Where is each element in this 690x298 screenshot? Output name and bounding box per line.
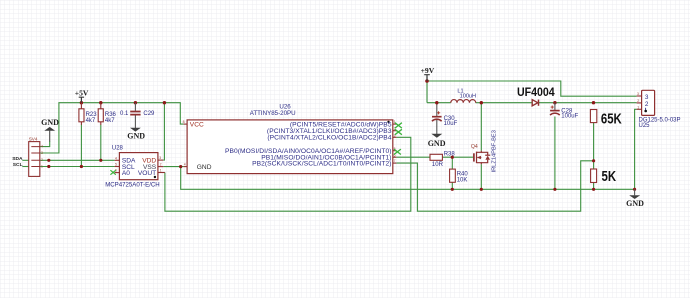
wire diode cathode to U25 pin2: [539, 102, 637, 104]
wire +9V riser: [426, 77, 428, 103]
svg-text:3: 3: [159, 156, 161, 160]
svg-text:GND: GND: [41, 118, 59, 127]
junction divider midpoint: [592, 159, 595, 162]
wire R38 junction to R40: [451, 157, 453, 169]
junction SCL at SV4: [47, 165, 50, 168]
wire U25 pin1 to GND rail: [635, 109, 637, 189]
svg-text:5: 5: [115, 163, 117, 167]
pin VCC stub U26: [184, 123, 188, 125]
wire SCL bus SV4 to U28: [40, 166, 115, 168]
junction SDA/R36: [99, 159, 102, 162]
junction SDA at SV4: [47, 159, 50, 162]
svg-text:2: 2: [41, 158, 43, 162]
wire 5K to GND rail: [593, 183, 595, 190]
junction SCL/R23: [80, 165, 83, 168]
svg-text:U25: U25: [639, 123, 651, 129]
junction Q4 source/GND rail: [480, 188, 483, 191]
svg-text:2: 2: [160, 163, 162, 167]
svg-text:3: 3: [41, 151, 43, 155]
svg-text:10K: 10K: [457, 178, 468, 184]
svg-text:100uH: 100uH: [460, 93, 476, 99]
pin VSS stub U28: [158, 166, 163, 168]
resistor 65K: [590, 110, 622, 127]
pin VDD stub U28: [158, 159, 163, 161]
ground GND at rail end: [626, 189, 644, 208]
junction +5V/VDD drop: [163, 101, 166, 104]
pin PB1 stub U26: [393, 156, 397, 158]
resistor R23: [79, 103, 97, 125]
svg-text:4: 4: [115, 156, 117, 160]
svg-text:0.1: 0.1: [120, 111, 129, 117]
svg-text:VOUT: VOUT: [138, 170, 156, 177]
wire U28 VSS to U26 GND: [163, 166, 183, 168]
svg-text:A0: A0: [122, 170, 130, 177]
svg-text:SCL: SCL: [13, 162, 23, 168]
pin GND stub U26: [184, 166, 188, 168]
svg-text:GND: GND: [626, 199, 644, 208]
wire 65K to divider midpoint: [593, 123, 595, 161]
capacitor C29: [120, 103, 155, 117]
svg-text:C29: C29: [143, 111, 155, 117]
svg-text:UF4004: UF4004: [517, 86, 555, 99]
wire Q4 drain: [480, 103, 482, 151]
junction R40/GND rail: [451, 188, 454, 191]
no-connect X on PB3: [395, 129, 402, 134]
pin 3 stub U25: [637, 95, 642, 97]
ground GND at SV4 pin4: [41, 118, 59, 142]
svg-text:SDA: SDA: [12, 156, 23, 162]
wire R40 to GND rail: [451, 182, 453, 189]
wire SDA net label stub: [22, 159, 28, 161]
svg-text:8: 8: [183, 120, 185, 124]
resistor R40 10K: [450, 169, 469, 184]
resistor 5K: [591, 168, 617, 185]
junction Q4 drain top: [480, 101, 483, 104]
pin PB3 stub U26: [393, 130, 397, 132]
svg-text:ATTINY85-20PU: ATTINY85-20PU: [250, 110, 296, 117]
svg-text:1: 1: [41, 164, 43, 168]
pin 1 stub U25: [637, 108, 642, 110]
wire U28 VOUT to PB4: [165, 137, 411, 211]
svg-text:GND: GND: [197, 164, 212, 171]
svg-text:10uF: 10uF: [444, 121, 458, 127]
wire C30 tap: [436, 103, 438, 105]
wire Q4 source to GND rail: [480, 164, 482, 189]
wire SDA bus SV4 to U28: [40, 159, 115, 161]
wire L1 to diode anode: [476, 102, 533, 104]
svg-text:GND: GND: [428, 139, 446, 148]
svg-text:2: 2: [645, 101, 649, 108]
junction GND rail end: [633, 188, 636, 191]
svg-text:SV4: SV4: [29, 137, 38, 142]
wire PB2 to divider midpoint: [396, 161, 593, 211]
diode UF4004: [517, 86, 555, 106]
svg-text:PB2(SCK/USCK/SCL/ADC1/T0/INT0/: PB2(SCK/USCK/SCL/ADC1/T0/INT0/PCINT2): [252, 160, 392, 167]
svg-text:7: 7: [394, 159, 396, 163]
wire R36 to SDA: [100, 125, 102, 161]
svg-text:R38: R38: [444, 151, 456, 157]
wire +5V rail: [40, 103, 184, 153]
junction C28 top: [553, 101, 556, 104]
svg-text:100uF: 100uF: [561, 114, 578, 120]
svg-text:4k7: 4k7: [105, 118, 115, 124]
wire R23 to SCL: [80, 125, 82, 167]
connector U25 DG125-5.0-03P: [637, 90, 681, 129]
svg-text:10R: 10R: [432, 162, 444, 168]
svg-text:3: 3: [637, 92, 639, 96]
svg-text:IRLZ14PBF-BE3: IRLZ14PBF-BE3: [491, 130, 497, 172]
pin VOUT stub U28: [158, 172, 165, 174]
svg-text:1: 1: [637, 105, 639, 109]
pin A0 stub U28: [115, 172, 120, 174]
svg-text:1: 1: [160, 169, 162, 173]
ground GND below C29: [127, 115, 145, 140]
pin SDA stub U28: [115, 159, 120, 161]
svg-text:MCP4725A0T-E/CH: MCP4725A0T-E/CH: [105, 182, 160, 189]
capacitor C28 100uF: [550, 103, 579, 120]
op-amp/DAC U28 MCP4725: [105, 145, 165, 188]
inductor L1 100uH: [451, 89, 476, 103]
junction +5V/R23: [80, 101, 83, 104]
svg-text:4: 4: [41, 144, 43, 148]
wire +9V to U25 pin3: [427, 81, 637, 96]
svg-text:U28: U28: [112, 145, 124, 151]
wire SCL net label stub: [22, 166, 28, 168]
svg-text:+5V: +5V: [75, 88, 89, 97]
wire SV4 pin4 to GND symbol: [40, 141, 50, 147]
junction +5V/C29: [134, 101, 137, 104]
junction +9V node: [425, 79, 429, 83]
svg-text:65K: 65K: [601, 110, 622, 127]
wire R38 to Q4 gate: [442, 156, 473, 158]
svg-text:2: 2: [637, 99, 639, 103]
no-connect X on A0: [110, 170, 115, 175]
wire GND rail: [181, 167, 635, 190]
junction 65K top: [592, 101, 595, 104]
connector SV4: [29, 137, 43, 177]
junction C28/GND rail: [553, 188, 556, 191]
pin SCL stub U28: [115, 166, 120, 168]
svg-text:GND: GND: [127, 131, 145, 140]
junction VSS/U26 GND: [179, 165, 182, 168]
junction 5K/GND rail: [592, 188, 595, 191]
pin 2 stub U25: [637, 102, 642, 104]
IC U26 ATTINY85-20PU: [183, 104, 402, 174]
svg-text:+9V: +9V: [421, 66, 435, 75]
wire +5V to U28 VDD: [163, 103, 164, 160]
pin PB5 stub U26: [393, 123, 397, 125]
pin PB4 stub U26: [393, 136, 397, 138]
resistor R36: [98, 103, 116, 125]
junction C30 top: [435, 101, 438, 104]
resistor R38 10R: [430, 151, 455, 168]
junction +5V/R36: [99, 101, 102, 104]
no-connect X on PB5: [395, 123, 402, 128]
svg-text:VCC: VCC: [190, 122, 204, 129]
wire C28 to GND rail: [554, 117, 556, 190]
supply +5V: [75, 88, 89, 102]
svg-text:(PCINT4/XTAL2/CLKO/OC1B/ADC2)P: (PCINT4/XTAL2/CLKO/OC1B/ADC2)PB4: [267, 135, 391, 142]
svg-text:4: 4: [184, 163, 186, 167]
pin PB0 stub U26: [393, 150, 397, 152]
wire 9V to L1: [427, 102, 451, 104]
pin PB2 stub U26: [393, 162, 397, 164]
ground GND below C30: [428, 120, 446, 148]
svg-text:5K: 5K: [602, 168, 617, 185]
svg-text:4k7: 4k7: [86, 118, 96, 124]
supply +9V: [421, 66, 435, 81]
transistor Q4 MOSFET: [471, 130, 497, 172]
no-connect X on PB0: [394, 149, 401, 154]
junction R38/R40/gate: [451, 156, 454, 159]
capacitor C30 10uF: [432, 105, 458, 127]
wire divider midpoint to 5K: [593, 161, 595, 169]
svg-text:Q4: Q4: [471, 144, 478, 150]
wire PB1 to R38: [396, 156, 430, 158]
